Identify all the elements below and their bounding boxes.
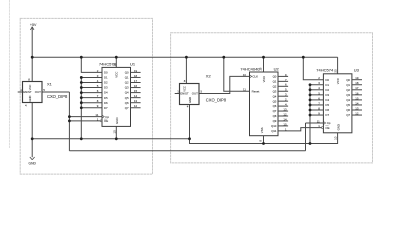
svg-text:D2: D2 bbox=[325, 88, 329, 92]
svg-text:GND: GND bbox=[28, 96, 32, 102]
svg-text:GND: GND bbox=[188, 97, 192, 103]
U2 pin numbers bbox=[243, 67, 287, 141]
U3 right output stubs Q0-Q7 bbox=[352, 80, 362, 115]
svg-text:74HC4040: 74HC4040 bbox=[240, 66, 260, 71]
svg-text:17: 17 bbox=[134, 79, 138, 83]
svg-text:16: 16 bbox=[134, 84, 138, 88]
svg-text:VSS: VSS bbox=[260, 127, 264, 133]
svg-text:D1: D1 bbox=[104, 76, 108, 80]
svg-text:Q3: Q3 bbox=[273, 89, 277, 93]
junction X1 OUT dots at U1 Cp and OE bbox=[68, 115, 71, 122]
svg-text:Q9: Q9 bbox=[273, 119, 277, 123]
svg-text:Q6: Q6 bbox=[346, 108, 350, 112]
svg-text:D0: D0 bbox=[104, 71, 108, 75]
svg-text:OUT: OUT bbox=[192, 92, 198, 96]
svg-text:Cp: Cp bbox=[327, 121, 331, 125]
X2 pin numbers bbox=[177, 79, 202, 109]
svg-text:OE: OE bbox=[104, 119, 108, 123]
svg-text:D5: D5 bbox=[325, 103, 329, 107]
svg-text:CLK: CLK bbox=[252, 75, 258, 79]
svg-text:EN/ST: EN/ST bbox=[23, 90, 32, 94]
svg-text:X2: X2 bbox=[206, 74, 212, 79]
svg-text:GND: GND bbox=[29, 161, 37, 165]
svg-text:15: 15 bbox=[134, 89, 138, 93]
U3 pin numbers bbox=[317, 69, 359, 140]
junction U1 bus dots bbox=[80, 76, 83, 109]
wire U2 VSS pin 8 to rail bbox=[262, 136, 266, 144]
svg-text:Q0: Q0 bbox=[125, 71, 129, 75]
svg-text:12: 12 bbox=[355, 111, 359, 115]
svg-text:14: 14 bbox=[283, 117, 287, 121]
ground symbol GND bbox=[29, 139, 37, 166]
counter U2 74HC4040 body bbox=[250, 72, 279, 136]
U1 right output stubs Q0-Q7 bbox=[131, 72, 141, 107]
X2 pin 1 EN/ST stub bbox=[175, 92, 180, 96]
svg-text:D6: D6 bbox=[325, 108, 329, 112]
svg-text:CXO_DIP8: CXO_DIP8 bbox=[206, 98, 227, 103]
X1 labels and pin names bbox=[23, 81, 68, 101]
oscillator X1 body bbox=[23, 82, 43, 103]
power symbol +5V bbox=[30, 23, 37, 30]
svg-text:13: 13 bbox=[134, 99, 138, 103]
svg-text:Q8: Q8 bbox=[273, 114, 277, 118]
svg-text:20: 20 bbox=[112, 63, 116, 67]
svg-text:VDD: VDD bbox=[262, 76, 266, 82]
svg-text:D0: D0 bbox=[325, 78, 329, 82]
svg-text:VCC: VCC bbox=[183, 86, 187, 92]
svg-text:U2: U2 bbox=[274, 66, 280, 71]
X2 labels and pin names bbox=[180, 74, 227, 103]
svg-text:10: 10 bbox=[243, 73, 247, 77]
latch U1 74HC574 body bbox=[102, 67, 131, 126]
module frame 0 partial left boundary bbox=[8, 0, 11, 148]
svg-text:18: 18 bbox=[134, 74, 138, 78]
svg-text:10: 10 bbox=[334, 136, 338, 140]
svg-text:D7: D7 bbox=[325, 113, 329, 117]
svg-text:D5: D5 bbox=[104, 96, 108, 100]
svg-text:D3: D3 bbox=[325, 93, 329, 97]
svg-text:1: 1 bbox=[20, 88, 22, 92]
svg-text:5: 5 bbox=[43, 88, 45, 92]
svg-text:D4: D4 bbox=[104, 91, 108, 95]
svg-text:EN/ST: EN/ST bbox=[180, 92, 189, 96]
svg-text:14: 14 bbox=[134, 94, 138, 98]
svg-text:1: 1 bbox=[177, 90, 179, 94]
svg-text:D1: D1 bbox=[325, 83, 329, 87]
svg-text:20: 20 bbox=[334, 69, 338, 73]
svg-text:Q7: Q7 bbox=[346, 113, 350, 117]
oscillator X2 body bbox=[180, 84, 200, 105]
wire U1 GND pin 10 to rail bbox=[114, 126, 118, 138]
svg-text:Q4: Q4 bbox=[346, 98, 350, 102]
latch U3 74HC574 body bbox=[323, 74, 352, 133]
svg-text:U3: U3 bbox=[354, 68, 360, 73]
svg-text:D4: D4 bbox=[325, 98, 329, 102]
svg-text:Q11: Q11 bbox=[271, 129, 277, 133]
svg-text:Q2: Q2 bbox=[273, 84, 277, 88]
wire GND rail right jog bbox=[190, 133, 338, 144]
U3 title labels bbox=[316, 68, 359, 73]
svg-text:Q5: Q5 bbox=[346, 103, 350, 107]
svg-text:11: 11 bbox=[317, 119, 320, 123]
wire +5V drop to U1 D0 pin 2 bbox=[81, 57, 102, 72]
svg-text:+5V: +5V bbox=[30, 23, 37, 27]
U2 clock pin triangle bbox=[250, 75, 252, 78]
U1 title labels bbox=[99, 61, 136, 66]
module frame 2 (right dashed boundary) bbox=[171, 33, 373, 163]
svg-text:Q7: Q7 bbox=[125, 106, 129, 110]
svg-text:15: 15 bbox=[283, 122, 287, 126]
wire +5V drop to U3 D0 pin 2 bbox=[303, 57, 323, 79]
U3 clock pin triangle and OE bubble bbox=[321, 122, 325, 129]
U1 interior pin names bbox=[104, 71, 129, 125]
svg-text:Q7: Q7 bbox=[273, 109, 277, 113]
svg-text:VCC: VCC bbox=[28, 85, 32, 91]
svg-text:D7: D7 bbox=[104, 106, 108, 110]
svg-text:Q6: Q6 bbox=[125, 101, 129, 105]
svg-text:Q1: Q1 bbox=[273, 79, 277, 83]
wire X2 OUT pin 5 to U2 CLK pin 10 bbox=[199, 76, 250, 93]
svg-text:18: 18 bbox=[355, 81, 359, 85]
svg-text:15: 15 bbox=[355, 96, 359, 100]
svg-text:Cp: Cp bbox=[105, 115, 109, 119]
svg-text:Q6: Q6 bbox=[273, 104, 277, 108]
svg-text:Q4: Q4 bbox=[125, 91, 129, 95]
svg-text:Q10: Q10 bbox=[271, 124, 277, 128]
svg-text:13: 13 bbox=[355, 106, 359, 110]
U1 clock pin triangle and OE bubble bbox=[100, 115, 104, 122]
svg-text:Q2: Q2 bbox=[125, 81, 129, 85]
wire U1 D1-D7 bus to GND bbox=[81, 77, 102, 138]
svg-text:8: 8 bbox=[259, 140, 263, 142]
svg-text:13: 13 bbox=[283, 107, 287, 111]
svg-text:16: 16 bbox=[355, 91, 359, 95]
svg-text:Reset: Reset bbox=[252, 89, 260, 93]
junction GND rail dots bbox=[31, 137, 312, 145]
svg-text:14: 14 bbox=[355, 101, 359, 105]
wire +5V drop to U3 VCC pin 20 bbox=[336, 57, 340, 74]
wire X2 GND pin 4 to rail bbox=[188, 105, 192, 139]
svg-text:GND: GND bbox=[115, 118, 119, 124]
U1 pin numbers bbox=[95, 63, 137, 134]
wire +5V drop to U1 VCC pin 20 bbox=[114, 57, 118, 67]
wire U3 D1-D7 bus to GND bbox=[310, 85, 323, 144]
svg-text:Q3: Q3 bbox=[346, 93, 350, 97]
wire GND rail left bbox=[32, 137, 189, 141]
wire U2 Q11 pin 1 to U3 OE pin 1 bbox=[278, 128, 322, 131]
svg-text:VCC: VCC bbox=[115, 72, 119, 78]
U2 right output stubs Q0-Q10 bbox=[278, 76, 288, 126]
svg-text:U1: U1 bbox=[130, 61, 136, 66]
svg-text:17: 17 bbox=[355, 86, 359, 90]
svg-text:Q1: Q1 bbox=[125, 76, 129, 80]
wire +5V drop to U2 Reset pin 11 bbox=[224, 57, 250, 91]
svg-text:74HC574: 74HC574 bbox=[316, 68, 334, 73]
svg-text:5: 5 bbox=[200, 90, 202, 94]
svg-text:VCC: VCC bbox=[336, 78, 340, 84]
junction U3 bus dots bbox=[309, 83, 312, 116]
svg-text:Q4: Q4 bbox=[273, 94, 277, 98]
junction +5V rail dots bbox=[31, 56, 305, 59]
U2 interior pin names bbox=[252, 75, 277, 134]
svg-text:D3: D3 bbox=[104, 86, 108, 90]
svg-text:OE: OE bbox=[325, 126, 329, 130]
svg-text:12: 12 bbox=[134, 104, 138, 108]
svg-text:12: 12 bbox=[283, 112, 287, 116]
svg-text:10: 10 bbox=[112, 130, 116, 134]
svg-text:Q2: Q2 bbox=[346, 88, 350, 92]
svg-text:D2: D2 bbox=[104, 81, 108, 85]
wire +5V rail bbox=[32, 55, 337, 59]
svg-text:GND: GND bbox=[337, 124, 341, 130]
svg-text:Q0: Q0 bbox=[346, 78, 350, 82]
wire +5V vertical from supply to X1 VCC pin 8 bbox=[30, 27, 34, 82]
svg-text:4: 4 bbox=[25, 103, 27, 107]
svg-text:D6: D6 bbox=[104, 101, 108, 105]
svg-text:11: 11 bbox=[243, 88, 246, 92]
U3 interior pin names bbox=[325, 78, 350, 131]
svg-text:11: 11 bbox=[95, 113, 98, 117]
svg-text:CXO_DIP8: CXO_DIP8 bbox=[47, 94, 68, 99]
svg-text:16: 16 bbox=[259, 67, 263, 71]
svg-text:Q5: Q5 bbox=[273, 99, 277, 103]
X1 pin numbers bbox=[20, 78, 45, 108]
X1 pin 1 EN/ST stub bbox=[18, 90, 23, 94]
U2 title labels bbox=[240, 66, 279, 71]
svg-text:Q1: Q1 bbox=[346, 83, 350, 87]
svg-text:19: 19 bbox=[134, 69, 138, 73]
svg-text:Q3: Q3 bbox=[125, 86, 129, 90]
svg-text:Q0: Q0 bbox=[273, 75, 277, 79]
svg-text:4: 4 bbox=[187, 105, 189, 109]
wire +5V drop to U2 VDD pin 16 bbox=[262, 57, 266, 72]
module frame 1 (left dashed boundary) bbox=[20, 18, 152, 174]
wire X1 GND pin 4 to rail bbox=[30, 103, 34, 139]
svg-text:Q5: Q5 bbox=[125, 96, 129, 100]
svg-text:X1: X1 bbox=[47, 81, 53, 86]
svg-text:OUT: OUT bbox=[35, 90, 41, 94]
wire X1 OUT to U1 Cp/OE and long run to U3 Cp bbox=[42, 92, 323, 151]
svg-text:8: 8 bbox=[184, 79, 186, 83]
wire +5V drop to X2 VCC pin 8 bbox=[184, 57, 188, 83]
svg-text:19: 19 bbox=[355, 76, 359, 80]
